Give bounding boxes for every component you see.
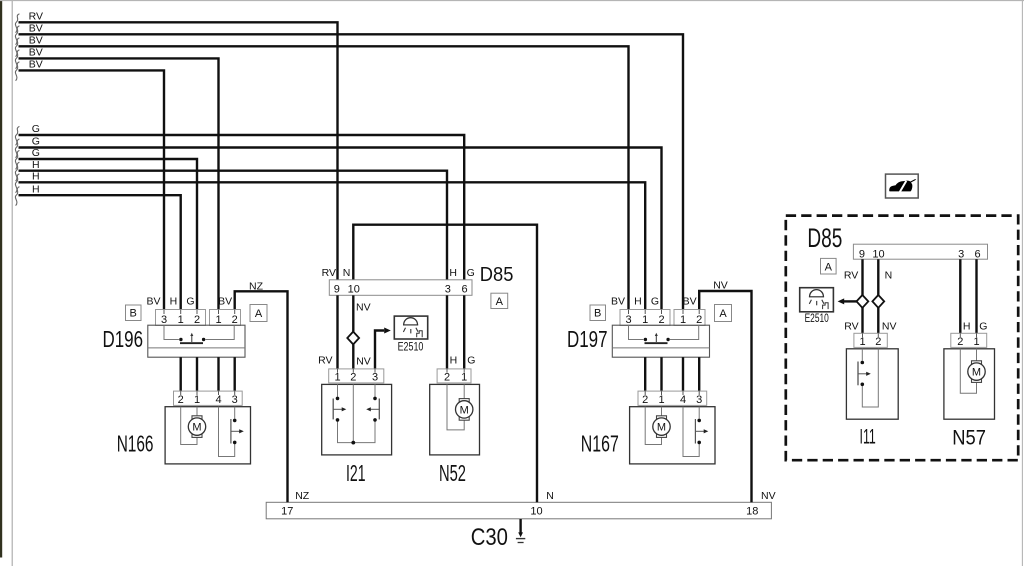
svg-text:B: B: [130, 308, 137, 320]
svg-text:10: 10: [348, 284, 360, 296]
svg-text:N167: N167: [581, 431, 619, 457]
svg-text:10: 10: [530, 505, 542, 517]
svg-text:BV: BV: [29, 47, 43, 59]
svg-text:H: H: [32, 183, 40, 195]
svg-text:2: 2: [232, 314, 238, 326]
svg-text:2: 2: [194, 314, 200, 326]
svg-text:1: 1: [859, 336, 865, 348]
svg-text:1: 1: [658, 394, 664, 406]
svg-text:G: G: [467, 267, 475, 279]
svg-text:18: 18: [746, 505, 758, 517]
svg-text:1: 1: [461, 371, 467, 383]
svg-text:A: A: [719, 308, 727, 320]
svg-text:1: 1: [215, 314, 221, 326]
svg-text:2: 2: [696, 314, 702, 326]
svg-text:E2510: E2510: [398, 340, 424, 354]
svg-text:4: 4: [215, 394, 221, 406]
svg-text:H: H: [634, 295, 642, 307]
svg-text:NV: NV: [761, 490, 776, 502]
svg-text:N166: N166: [117, 431, 154, 457]
svg-text:3: 3: [161, 314, 167, 326]
svg-text:A: A: [825, 262, 833, 274]
svg-text:3: 3: [232, 394, 238, 406]
svg-text:I21: I21: [346, 460, 366, 486]
svg-text:N57: N57: [952, 427, 986, 450]
svg-text:I11: I11: [860, 426, 876, 449]
svg-text:2: 2: [875, 336, 881, 348]
svg-text:6: 6: [462, 284, 468, 296]
svg-text:2: 2: [658, 314, 664, 326]
svg-text:H: H: [449, 267, 457, 279]
svg-text:RV: RV: [29, 11, 43, 23]
svg-text:NV: NV: [356, 356, 371, 368]
svg-text:17: 17: [281, 505, 293, 517]
svg-text:RV: RV: [844, 270, 858, 282]
svg-text:BV: BV: [29, 59, 43, 71]
svg-text:2: 2: [350, 371, 356, 383]
svg-text:RV: RV: [844, 321, 858, 333]
svg-text:1: 1: [178, 314, 184, 326]
svg-text:9: 9: [859, 248, 865, 260]
svg-text:H: H: [32, 159, 40, 171]
svg-text:3: 3: [696, 394, 702, 406]
svg-text:G: G: [186, 295, 194, 307]
svg-text:2: 2: [957, 336, 963, 348]
svg-text:RV: RV: [318, 354, 332, 366]
svg-text:H: H: [32, 171, 40, 183]
svg-text:BV: BV: [611, 295, 625, 307]
svg-text:N: N: [343, 267, 351, 279]
svg-text:G: G: [651, 295, 659, 307]
svg-text:NZ: NZ: [249, 281, 264, 293]
svg-text:3: 3: [372, 371, 378, 383]
svg-text:3: 3: [958, 248, 964, 260]
svg-text:H: H: [963, 321, 971, 333]
svg-text:H: H: [450, 354, 458, 366]
svg-text:A: A: [496, 296, 504, 308]
svg-text:D85: D85: [480, 263, 514, 286]
svg-text:1: 1: [680, 314, 686, 326]
svg-text:BV: BV: [146, 295, 160, 307]
svg-text:1: 1: [194, 394, 200, 406]
svg-text:G: G: [32, 147, 40, 159]
svg-text:4: 4: [680, 394, 686, 406]
svg-text:A: A: [255, 308, 263, 320]
svg-text:6: 6: [975, 248, 981, 260]
svg-text:H: H: [170, 295, 178, 307]
svg-text:10: 10: [872, 248, 884, 260]
svg-text:1: 1: [334, 371, 340, 383]
svg-text:N: N: [546, 490, 554, 502]
svg-text:NV: NV: [882, 321, 897, 333]
svg-text:G: G: [979, 321, 987, 333]
svg-text:BV: BV: [683, 295, 697, 307]
svg-text:1: 1: [973, 336, 979, 348]
svg-text:1: 1: [642, 314, 648, 326]
svg-text:NZ: NZ: [295, 490, 310, 502]
svg-text:B: B: [594, 308, 601, 320]
svg-text:N52: N52: [439, 460, 466, 486]
svg-text:RV: RV: [322, 267, 336, 279]
svg-text:BV: BV: [29, 23, 43, 35]
svg-text:2: 2: [642, 394, 648, 406]
svg-text:G: G: [467, 354, 475, 366]
svg-text:BV: BV: [29, 35, 43, 47]
svg-text:G: G: [32, 123, 40, 135]
svg-text:D85: D85: [807, 223, 842, 253]
svg-text:D197: D197: [567, 326, 608, 352]
svg-text:NV: NV: [356, 301, 371, 313]
svg-text:9: 9: [334, 284, 340, 296]
svg-text:BV: BV: [218, 295, 232, 307]
svg-text:D196: D196: [103, 326, 144, 352]
svg-text:3: 3: [445, 284, 451, 296]
svg-text:3: 3: [625, 314, 631, 326]
svg-text:C30: C30: [471, 524, 508, 551]
svg-text:2: 2: [178, 394, 184, 406]
svg-text:NV: NV: [713, 280, 728, 292]
svg-text:N: N: [885, 270, 893, 282]
svg-text:G: G: [32, 136, 40, 148]
svg-text:E2510: E2510: [805, 313, 829, 325]
svg-text:2: 2: [444, 371, 450, 383]
